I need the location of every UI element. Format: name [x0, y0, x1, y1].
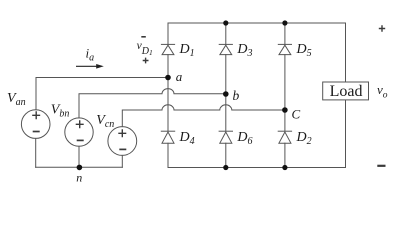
Vcn polarity minus — [119, 148, 126, 150]
wire neutral bus n — [36, 166, 123, 168]
voltage source Vbn — [65, 118, 93, 146]
wire Vbn bottom to neutral — [78, 146, 80, 167]
node b junction dot — [223, 91, 229, 97]
wire bottom rail — [168, 167, 346, 169]
load box — [323, 82, 369, 100]
vD1 minus sign — [141, 36, 146, 38]
wire Vcn to node c (hops over phase-a and phase-b columns) — [122, 105, 285, 127]
Vcn polarity plus — [118, 129, 126, 137]
junction dot top rail at phase-b column — [223, 20, 228, 25]
Vbn polarity minus — [77, 139, 84, 141]
voltage source Vcn — [108, 127, 137, 156]
node a junction dot — [165, 75, 171, 81]
svg-text:a: a — [176, 69, 183, 84]
svg-text:C: C — [292, 107, 301, 122]
node n junction dot — [77, 165, 83, 171]
node c junction dot — [282, 107, 288, 113]
output minus sign (bottom right) — [377, 165, 385, 167]
diode D3 — [219, 44, 232, 54]
svg-text:Load: Load — [330, 83, 363, 100]
junction dot bottom rail at phase-c column — [282, 165, 287, 170]
diode D5 — [278, 44, 291, 54]
wire right rail lower — [345, 100, 347, 168]
current arrow ia — [76, 64, 104, 69]
wire D3 to node b to D6 — [225, 55, 227, 132]
wire phase-a column top (top rail to D1) — [167, 23, 169, 44]
wire Van to node a — [36, 78, 168, 110]
diode D4 — [161, 131, 174, 143]
vD1 plus sign — [143, 58, 149, 64]
wire Vbn to node b (hop over phase-a column) — [79, 89, 226, 118]
wire D2 to bottom rail — [284, 143, 286, 167]
Van polarity plus — [32, 111, 40, 119]
Van polarity minus — [33, 131, 40, 133]
wire D5 to node c to D2 — [284, 55, 286, 132]
diode D2 — [278, 131, 291, 143]
wire right rail upper — [345, 23, 347, 82]
wire phase-b column top (top rail to D3) — [225, 23, 227, 44]
wire Vcn bottom to neutral — [121, 155, 123, 167]
wire D6 to bottom rail — [225, 143, 227, 167]
Vbn polarity plus — [76, 120, 84, 128]
diode D6 — [219, 131, 232, 143]
wire phase-c column top (top rail to D5) — [284, 23, 286, 44]
voltage source Van — [21, 110, 50, 139]
wire top rail — [168, 22, 346, 24]
wire Van bottom to neutral — [35, 138, 37, 167]
svg-text:n: n — [76, 171, 82, 185]
svg-text:b: b — [233, 88, 240, 103]
wire D4 to bottom rail — [167, 143, 169, 167]
junction dot top rail at phase-c column — [282, 20, 287, 25]
diode D1 — [161, 44, 174, 54]
output plus sign (top right) — [379, 25, 385, 31]
junction dot bottom rail at phase-b column — [223, 165, 228, 170]
wire D1 to node a to D4 — [167, 55, 169, 132]
